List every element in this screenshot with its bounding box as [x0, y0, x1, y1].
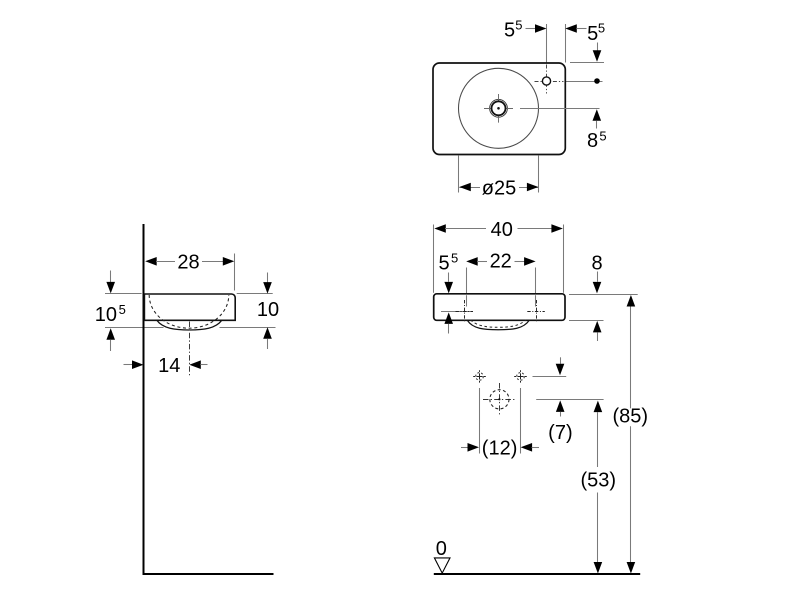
svg-text:5: 5 — [515, 18, 522, 33]
front view: bowl underside fill — [467, 320, 529, 329]
datum triangle — [434, 558, 450, 573]
ext line: plan right edge extended upward — [565, 24, 567, 63]
dim 22 — [466, 257, 478, 266]
front view: bowl hidden dashes — [471, 320, 526, 327]
svg-text:(53): (53) — [581, 470, 617, 492]
svg-text:10: 10 — [95, 304, 117, 326]
ref line: basin centre level extended right — [520, 108, 600, 110]
ext line: side top edge level, left of wall — [105, 293, 142, 295]
svg-text:(85): (85) — [613, 405, 649, 427]
svg-text:0: 0 — [436, 538, 447, 560]
svg-text:(7): (7) — [548, 422, 572, 444]
ext line: side top edge level, right of body — [237, 293, 273, 295]
dim dia-25 — [459, 187, 480, 189]
dim 8 front arrows — [597, 272, 599, 282]
plan view: drain crosshair — [484, 108, 513, 110]
svg-text:14: 14 — [158, 355, 180, 377]
floor line under side view — [143, 573, 274, 575]
svg-text:5: 5 — [504, 19, 515, 41]
ext line: dim 40 right — [563, 225, 565, 293]
plan view: washbasin outline — [433, 63, 565, 155]
wall line — [143, 224, 145, 575]
svg-text:5: 5 — [439, 252, 450, 274]
ext line: fixing hole right vertical — [520, 388, 522, 454]
tap hole crosshair — [535, 81, 564, 83]
lower: drain outlet crosshair — [483, 399, 516, 401]
ref line: front top edge extended right — [569, 294, 638, 296]
lower: drain outlet centre dot — [498, 398, 500, 400]
front: bolt hole cross left — [456, 311, 474, 313]
lower: drain outlet dashed circle — [490, 390, 509, 409]
lower: fixing hole symbol right — [514, 376, 527, 378]
ext line: dim 22 right, inside body — [535, 295, 537, 306]
side view: bowl underside fill — [157, 320, 222, 330]
svg-text:8: 8 — [587, 130, 598, 152]
ref line: front bottom edge extended right — [569, 320, 604, 322]
ext line: dim 28 right side — [234, 254, 236, 291]
svg-text:5: 5 — [599, 129, 606, 144]
floor line right — [434, 573, 640, 575]
ext line: dim 40 left — [433, 225, 435, 293]
side view: basin body — [144, 294, 235, 320]
svg-text:28: 28 — [177, 252, 199, 274]
plan view: basin bowl circle — [459, 68, 539, 148]
side view: drain centre line — [189, 322, 191, 378]
ext line: dim 22 left, inside body — [466, 295, 468, 306]
ext line: bowl bottom level, left — [105, 327, 164, 329]
dim (7) — [560, 357, 562, 364]
svg-text:5: 5 — [598, 21, 605, 36]
ext line: bowl bottom level, right — [220, 327, 276, 329]
dim (85) — [627, 295, 636, 307]
front view: bowl underside — [467, 320, 529, 329]
ext line: dim 22 right — [535, 268, 537, 294]
dim 5.5 front arrows — [448, 273, 450, 282]
ext lines for dia-25 — [458, 155, 460, 192]
svg-text:22: 22 — [490, 251, 512, 273]
ext line: dim 22 left — [466, 268, 468, 294]
dim 40 — [434, 224, 446, 233]
dot marker shared by 5.5/8.5 chain — [594, 78, 600, 84]
dim 14 — [124, 364, 134, 366]
dim 28 — [145, 257, 157, 266]
plan view: drain centre dot — [497, 107, 500, 110]
ref line: plan rear edge extended right — [570, 62, 604, 64]
ref line: fixing hole level right — [533, 376, 567, 378]
svg-text:(12): (12) — [482, 438, 518, 460]
svg-text:5: 5 — [587, 23, 598, 45]
dim 8.5 arrow — [593, 109, 602, 121]
side view: bowl underside — [157, 320, 222, 330]
svg-text:5: 5 — [119, 302, 126, 317]
ext line: tap-hole vertical axis above plan — [546, 24, 548, 67]
dim 10.5 arrows and label — [110, 271, 112, 283]
dim 5.5 (tap hole to right edge), label left — [526, 28, 537, 30]
lower: fixing hole symbol left — [473, 376, 486, 378]
side view: bowl inner profile (hidden line) — [149, 295, 229, 328]
front: bolt hole cross right — [527, 311, 545, 313]
ref line: bolt hole level left of cross — [441, 311, 472, 313]
plan view: drain hole — [492, 101, 506, 115]
plan view: tap hole — [542, 77, 550, 85]
dim 10 arrows and label — [267, 273, 269, 283]
svg-text:ø25: ø25 — [482, 177, 516, 199]
svg-text:40: 40 — [491, 219, 513, 241]
front view: basin body — [434, 294, 565, 321]
svg-text:5: 5 — [451, 251, 458, 266]
plan view: drain outer ring — [490, 99, 508, 117]
dim (12) — [461, 447, 469, 449]
ref line: tap-hole level extended right — [565, 81, 602, 83]
ext line: fixing hole left vertical — [479, 388, 481, 454]
dim (53) — [594, 401, 603, 413]
svg-text:10: 10 — [257, 299, 279, 321]
svg-text:8: 8 — [591, 252, 602, 274]
ref line: drain outlet level right — [536, 399, 603, 401]
